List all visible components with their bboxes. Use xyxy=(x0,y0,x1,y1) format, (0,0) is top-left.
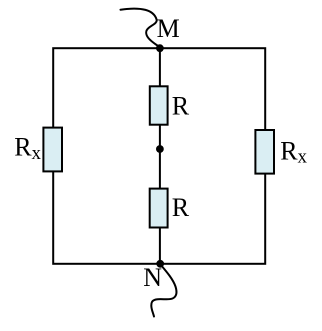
node N junction dot xyxy=(156,260,164,268)
wire: outer rectangle loop (top/bottom rails, left/right branches) xyxy=(53,48,265,264)
node M junction dot xyxy=(156,44,164,52)
resistor R (middle branch, lower) xyxy=(150,189,168,228)
wire: middle branch vertical M to N xyxy=(159,48,161,264)
svg-text:Rx: Rx xyxy=(14,133,41,164)
resistor Rx (right branch) xyxy=(255,130,274,174)
svg-text:Rx: Rx xyxy=(280,136,307,167)
svg-text:R: R xyxy=(172,193,190,222)
resistor Rx (left branch) xyxy=(43,128,62,172)
svg-text:R: R xyxy=(172,92,190,121)
resistor R (middle branch, upper) xyxy=(150,86,168,124)
wire: squiggly lead out of node N xyxy=(151,264,176,316)
wire: squiggly lead into node M xyxy=(121,9,160,47)
node: middle junction dot between the two R resistors xyxy=(156,145,164,153)
svg-text:N: N xyxy=(143,263,162,292)
svg-text:M: M xyxy=(157,14,180,43)
